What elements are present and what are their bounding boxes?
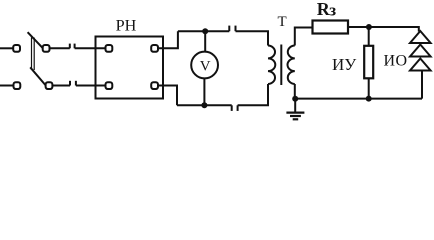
switch S blade bottom pole (30, 67, 46, 85)
transformer T core (280, 45, 282, 86)
wire bottom row to connector (52, 85, 70, 87)
terminal PH right-top (151, 45, 158, 52)
svg-text:РН: РН (116, 16, 137, 34)
resistor R3 body (313, 21, 349, 34)
wire top row to connector (49, 47, 70, 49)
terminal X1 top input (13, 45, 20, 52)
regulator PH box (96, 37, 164, 99)
junction dot R3 rail (366, 24, 372, 30)
transformer T secondary winding (288, 46, 295, 85)
wire IU top lead (368, 27, 370, 46)
wire PH right-top to top rail (158, 31, 178, 48)
junction dot bottom rail (201, 102, 207, 108)
ground symbol (294, 99, 296, 112)
wire transformer secondary top to R3 (295, 28, 313, 46)
svg-text:ИО: ИО (384, 53, 408, 70)
wire IO bottom lead (420, 71, 422, 99)
wire IU bottom lead (368, 78, 370, 98)
wire input stub top (0, 47, 13, 49)
terminal PH left-top (106, 45, 113, 52)
switch S blade top pole (28, 32, 43, 48)
switch S fixed contact top (terminal) (43, 45, 50, 52)
terminal X2 bottom input (14, 82, 21, 89)
bottom rail (177, 104, 232, 106)
junction dot top rail (202, 28, 208, 34)
svg-text:V: V (200, 58, 211, 74)
switch S fixed contact bottom (terminal) (46, 82, 53, 89)
wire bottom rail to transformer primary (238, 84, 268, 105)
wire R3 to IO corner (348, 27, 419, 32)
junction dot ground node (292, 96, 298, 102)
device IU box (364, 46, 373, 79)
connector gap ticks top rail (228, 26, 230, 32)
voltmeter V circle (191, 52, 218, 79)
transformer T primary winding (268, 46, 275, 85)
bottom rail secondary side (295, 98, 422, 100)
test object IO insulator stack triangle 2 (410, 45, 431, 57)
connector gap ticks top row (69, 44, 71, 49)
junction dot IU bottom (366, 96, 372, 102)
wire PH right-bottom to bottom rail (158, 86, 177, 106)
test object IO insulator stack triangle 1 (410, 31, 431, 43)
svg-text:Т: Т (278, 14, 287, 30)
voltmeter V leads (204, 31, 206, 52)
svg-text:з: з (329, 1, 336, 20)
wire top rail to transformer primary (236, 31, 269, 45)
switch S mechanical link (double line) (31, 38, 33, 71)
terminal PH right-bottom (151, 82, 158, 89)
wire top row into PH box (75, 47, 106, 49)
connector gap ticks bottom rail (231, 105, 233, 111)
top rail (178, 30, 229, 32)
svg-text:ИУ: ИУ (332, 55, 357, 74)
terminal PH left-bottom (106, 82, 113, 89)
connector gap ticks bottom row (69, 81, 71, 86)
wire input stub bottom (0, 85, 14, 87)
test object IO insulator stack triangle 3 (410, 59, 431, 71)
wire transformer secondary bottom to ground node (294, 84, 296, 99)
wire bottom row into PH box (76, 85, 106, 87)
